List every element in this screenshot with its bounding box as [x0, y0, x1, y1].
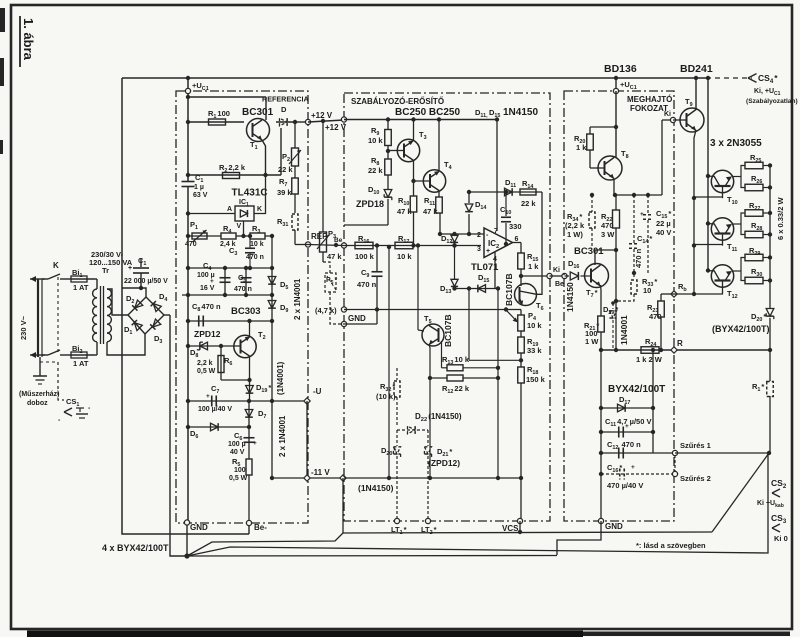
svg-text:+: + [486, 248, 490, 255]
svg-text:R: R [677, 339, 683, 348]
node -11V [304, 475, 310, 481]
svg-text:+: + [128, 265, 132, 272]
wire T6 collector feedback [537, 192, 543, 294]
transistor T4 BC250 [423, 170, 445, 192]
node Be box3 edge [550, 275, 565, 277]
svg-text:3 W: 3 W [601, 230, 615, 239]
node LT1 [394, 518, 399, 523]
wire Be input rail [341, 243, 346, 248]
node Be- box1 [246, 520, 251, 525]
wire R9 to T3 base [387, 146, 389, 151]
transistor T9 [680, 108, 704, 132]
wire output row 350 [614, 348, 618, 352]
svg-text:1N4150: 1N4150 [503, 107, 538, 118]
node GND box1 [184, 520, 189, 525]
wire BD136 down [614, 76, 618, 80]
svg-text:Ki: Ki [664, 111, 671, 118]
svg-text:22 000 µ/50 V: 22 000 µ/50 V [124, 278, 168, 285]
svg-text:doboz: doboz [27, 400, 48, 407]
svg-text:6 x 0.33/2 W: 6 x 0.33/2 W [776, 197, 785, 240]
wire szures1 to output node [675, 452, 769, 454]
svg-text:BC301: BC301 [242, 107, 274, 118]
wire T7 emitter [600, 285, 603, 316]
bridge rectifier diamond [128, 297, 164, 334]
svg-text:+: + [625, 423, 629, 430]
wire T9 emitter base bus [694, 130, 696, 294]
wire -11V drop [342, 478, 344, 533]
svg-text:100: 100 [234, 467, 246, 474]
wire T9 base link [661, 120, 663, 195]
node +12V box2 entry [341, 117, 346, 122]
svg-text:10 k: 10 k [368, 136, 383, 145]
svg-text:BC303: BC303 [231, 306, 261, 317]
svg-text:K: K [53, 261, 59, 270]
svg-text:BC107B: BC107B [443, 314, 453, 347]
svg-text:1 k 2 W: 1 k 2 W [636, 355, 663, 364]
node REF box1 edge [305, 242, 310, 247]
wire -U [247, 399, 251, 403]
svg-text:+: + [206, 393, 210, 400]
wire T2 emitter up [249, 321, 251, 337]
svg-text:(1N4150): (1N4150) [358, 483, 394, 493]
wire T3 emitter up [413, 120, 415, 142]
svg-text:0,5 W: 0,5 W [197, 368, 216, 375]
svg-text:16 V: 16 V [200, 285, 215, 292]
wire T7 collector [595, 250, 616, 265]
svg-text:10: 10 [643, 286, 651, 295]
svg-text:BC301: BC301 [574, 246, 604, 257]
svg-text:(Szabályozatlan): (Szabályozatlan) [746, 98, 798, 105]
svg-text:330: 330 [509, 222, 522, 231]
wire T1 emitter to R2 rail [262, 140, 266, 175]
svg-text:-U: -U [313, 387, 322, 396]
wire -U vertical to -11V [306, 401, 308, 478]
wire bridge positive to C1 rail [122, 288, 146, 297]
svg-text:22 µ: 22 µ [656, 219, 671, 228]
svg-text:2 x 1N4001: 2 x 1N4001 [278, 415, 287, 457]
diode D2 [132, 300, 143, 311]
svg-text:Be: Be [555, 281, 564, 288]
wire +Uc1 top rail [122, 77, 706, 79]
wire Be- to box bottom [248, 525, 250, 534]
svg-text:(4,7 k): (4,7 k) [315, 306, 337, 315]
emitter rail right [769, 166, 771, 309]
svg-text:0,5 W: 0,5 W [229, 475, 248, 482]
svg-text:1N4150: 1N4150 [565, 282, 575, 312]
block box SZABALYOZO-EROSITO [344, 93, 550, 521]
wire TL431 anode [186, 211, 190, 215]
svg-text:230 V~: 230 V~ [19, 315, 28, 340]
node -U [304, 398, 310, 404]
svg-text:+: + [631, 464, 635, 471]
svg-text:40 V: 40 V [230, 449, 245, 456]
svg-text:ZPD12: ZPD12 [194, 329, 221, 339]
wire T9 collector [695, 78, 697, 110]
wire bridge negative down [164, 314, 170, 316]
wire D10 to box edge [344, 224, 388, 226]
node GND box3 [598, 518, 603, 523]
svg-text:3: 3 [477, 246, 481, 253]
wire T10 emitter tap [732, 176, 742, 178]
svg-text:GND: GND [348, 314, 366, 323]
svg-text:3 x 2N3055: 3 x 2N3055 [710, 138, 762, 149]
wire T11 emitter tap [732, 223, 742, 225]
svg-text:V: V [237, 223, 242, 230]
node GND box2 upper [341, 307, 346, 312]
wire main left box [122, 78, 249, 534]
svg-text:(ZPD12): (ZPD12) [428, 458, 460, 468]
wire -11V [272, 477, 343, 479]
svg-text:22 k: 22 k [521, 199, 536, 208]
earth ground from plug [39, 357, 41, 376]
wire divider drop [388, 247, 390, 478]
svg-text:470 n: 470 n [234, 286, 252, 293]
wire filter right rail [651, 348, 655, 352]
wire VCS drop [519, 521, 521, 532]
enclosure dashed link [40, 361, 58, 363]
svg-text:470: 470 [185, 241, 197, 248]
svg-text:GND: GND [190, 523, 208, 532]
node R box3 edge [671, 347, 677, 353]
svg-text:10 k: 10 k [397, 252, 412, 261]
svg-text:TL431C: TL431C [232, 188, 268, 199]
wire T5 collector [417, 246, 419, 331]
node VCS [517, 518, 522, 523]
wire -11V rail box2 [344, 477, 521, 479]
svg-text:47 k: 47 k [327, 252, 342, 261]
svg-text:D: D [281, 105, 287, 114]
svg-text:63 V: 63 V [193, 192, 208, 199]
svg-text:100 µ: 100 µ [228, 441, 246, 448]
node Ki box2 [547, 273, 552, 278]
svg-text:39 k: 39 k [277, 188, 292, 197]
svg-text:Szűrés 1: Szűrés 1 [680, 441, 711, 450]
svg-text:1 k: 1 k [528, 262, 539, 271]
wire +12V to box2 [295, 121, 308, 123]
node Szures2 [672, 471, 677, 476]
mains plug [37, 279, 39, 357]
wire +Uc1 rail into box1 [186, 76, 190, 80]
svg-text:(Műszerház): (Műszerház) [19, 391, 59, 398]
wire D9 down to -U [271, 321, 273, 478]
svg-text:120...150 VA: 120...150 VA [89, 258, 133, 267]
wire R19 R18 junction [520, 353, 522, 367]
connector CS4 [748, 74, 757, 78]
transformer secondary [107, 289, 111, 298]
transformer core [100, 286, 102, 344]
svg-text:40 V: 40 V [656, 228, 671, 237]
wire T8 base [590, 167, 605, 169]
svg-text:Ki: Ki [553, 267, 560, 274]
wire opamp pin7 supply [496, 120, 498, 232]
svg-text:1 W: 1 W [585, 337, 599, 346]
wire Ki tap [519, 274, 523, 278]
transistor T8 [598, 156, 622, 180]
svg-text:(2,2 k: (2,2 k [565, 221, 585, 230]
svg-text:1N4001: 1N4001 [619, 315, 629, 345]
svg-text:22 k: 22 k [368, 166, 383, 175]
svg-text:+12 V: +12 V [311, 111, 333, 120]
wire +12V rail box2 [344, 119, 497, 121]
wire rail 268 [186, 266, 190, 270]
node +12V box1 edge [305, 119, 310, 124]
wire T3 collector to T4 base [413, 160, 415, 196]
transistor T10 [711, 170, 733, 192]
wire opamp inverting input [439, 233, 484, 235]
wire T5 emitter [429, 344, 430, 478]
node LT2 [425, 518, 430, 523]
wire T11 collector tap [706, 221, 710, 225]
svg-text:ZPD18: ZPD18 [356, 199, 384, 209]
svg-text:GND: GND [605, 522, 623, 531]
diode D3 [150, 319, 161, 330]
node +Uc1 box1 entry [185, 88, 190, 93]
transistor T3 BC250 [397, 139, 419, 161]
svg-text:10 k: 10 k [250, 241, 264, 248]
svg-text:VCS: VCS [502, 524, 519, 533]
svg-text:1. ábra: 1. ábra [21, 18, 36, 61]
wire TL431 cathode [254, 175, 266, 214]
svg-text:4 x BYX42/100T: 4 x BYX42/100T [102, 543, 169, 553]
block box REFERENCIA [176, 91, 308, 523]
svg-text:Be: Be [334, 237, 343, 244]
wire filter left rail [599, 348, 603, 352]
wire T2 collector down [249, 356, 251, 380]
svg-text:REFERENCIA: REFERENCIA [262, 95, 309, 104]
svg-text:SZABÁLYOZÓ-ERŐSÍTŐ: SZABÁLYOZÓ-ERŐSÍTŐ [351, 97, 444, 106]
block box MEGHAJTO FOKOZAT [564, 91, 674, 521]
svg-text:*: lásd a szövegben: *: lásd a szövegben [636, 541, 706, 550]
svg-text:2: 2 [477, 232, 481, 239]
wire T5 base from R13 [441, 341, 443, 368]
wire T10 collector tap [706, 174, 710, 178]
wire output minus rail [343, 532, 712, 533]
wire T11 base [694, 244, 723, 246]
svg-text:+: + [253, 440, 257, 447]
svg-text:(BYX42/100T): (BYX42/100T) [712, 324, 770, 334]
svg-text:K: K [257, 206, 262, 213]
wire T6 emitter gnd link [506, 309, 521, 311]
svg-text:1 k: 1 k [576, 143, 587, 152]
diode D1 [132, 320, 143, 331]
wire GND drop box3 [557, 521, 601, 555]
svg-text:1 µ: 1 µ [194, 184, 204, 191]
svg-text:A: A [227, 206, 232, 213]
svg-text:1 W): 1 W) [567, 230, 583, 239]
svg-text:10 k: 10 k [527, 321, 542, 330]
wire rail 295 [186, 293, 190, 297]
svg-text:BC107B: BC107B [504, 273, 514, 306]
svg-text:-11 V: -11 V [311, 468, 330, 477]
node Rb box3 edge [671, 291, 677, 297]
svg-text:BYX42/100T: BYX42/100T [608, 384, 665, 395]
transistor T12 [711, 265, 733, 287]
wire diode D down [280, 128, 282, 175]
feedback wire [469, 191, 542, 193]
wire T1 top [186, 95, 190, 99]
wire opamp output [513, 242, 522, 244]
wire szures link dashed [674, 455, 676, 471]
wire REF to Be [308, 245, 344, 246]
wire secondary to bridge [107, 289, 128, 315]
svg-text:Be-: Be- [254, 523, 267, 532]
svg-text:Ki 0: Ki 0 [774, 534, 788, 543]
svg-text:MEGHAJTÓ: MEGHAJTÓ [627, 95, 672, 104]
wire T12 base [694, 292, 723, 295]
svg-text:470 n: 470 n [634, 248, 643, 268]
node GND box2 lower [341, 321, 346, 326]
node +Uc1 box3 [613, 88, 618, 93]
wire T1 collector [262, 119, 266, 122]
scan mark left edge [0, 8, 5, 32]
wire fan junction [184, 553, 189, 558]
svg-text:BD241: BD241 [680, 63, 713, 75]
wire T8 emitter rail [614, 179, 662, 196]
svg-text:Tr: Tr [102, 266, 109, 275]
wire T10 base [694, 196, 723, 198]
wire fan line A [187, 533, 343, 556]
wire sense divider vertical [497, 289, 499, 479]
wire fan line C [187, 555, 557, 558]
svg-text:2 x 1N4001: 2 x 1N4001 [293, 278, 302, 320]
svg-text:+: + [210, 278, 214, 285]
wire fan line B [187, 453, 768, 556]
svg-text:FOKOZAT: FOKOZAT [630, 104, 668, 113]
svg-text:470 n: 470 n [357, 280, 377, 289]
svg-text:470: 470 [601, 221, 614, 230]
svg-text:470 n: 470 n [246, 254, 264, 261]
svg-text:100 k: 100 k [355, 252, 375, 261]
svg-text:BD136: BD136 [604, 63, 637, 75]
wire TL431 V to divider [243, 221, 245, 236]
svg-text:100 µ/40 V: 100 µ/40 V [198, 406, 232, 413]
svg-text:2,2 k: 2,2 k [197, 360, 213, 367]
svg-text:(10 k): (10 k) [376, 392, 396, 401]
collector bus [706, 76, 710, 80]
node Szures1 [672, 450, 677, 455]
svg-text:1 AT: 1 AT [73, 359, 89, 368]
wire plug to switch [42, 278, 48, 280]
svg-text:470 µ/40 V: 470 µ/40 V [607, 481, 643, 490]
op-amp U2 TL071 [484, 228, 513, 258]
svg-text:1 AT: 1 AT [73, 283, 89, 292]
wire T12 emitter tap [732, 270, 742, 272]
svg-text:Szűrés 2: Szűrés 2 [680, 474, 711, 483]
svg-text:BC250 BC250: BC250 BC250 [395, 107, 460, 118]
svg-text:33 k: 33 k [527, 346, 542, 355]
scan mark bottom band [27, 631, 583, 637]
wire T12 collector tap [706, 268, 710, 272]
diode D4 [151, 301, 162, 312]
transistor T11 [711, 218, 733, 240]
svg-text:150 k: 150 k [526, 375, 546, 384]
svg-text:(1N4001): (1N4001) [276, 361, 285, 395]
wire T4 emitter up [438, 120, 440, 172]
wire opamp pin4 [494, 252, 496, 289]
node Ki box3 T9 [670, 117, 675, 122]
